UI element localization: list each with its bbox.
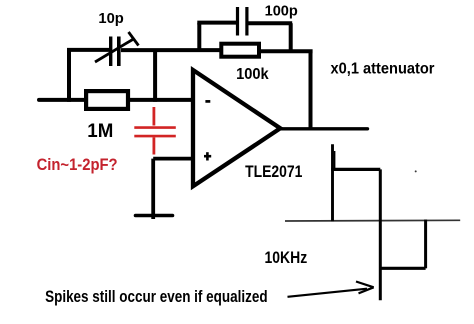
svg-text:TLE2071: TLE2071 (245, 162, 302, 181)
svg-text:1M: 1M (87, 120, 113, 142)
svg-text:10p: 10p (98, 10, 123, 27)
svg-text:10KHz: 10KHz (265, 248, 308, 267)
svg-text:x0,1 attenuator: x0,1 attenuator (331, 61, 435, 78)
svg-text:100p: 100p (265, 3, 298, 20)
svg-text:100k: 100k (236, 66, 269, 83)
svg-text:Spikes still occur even if equ: Spikes still occur even if equalized (45, 287, 268, 306)
svg-text:Cin~1-2pF?: Cin~1-2pF? (37, 156, 118, 174)
